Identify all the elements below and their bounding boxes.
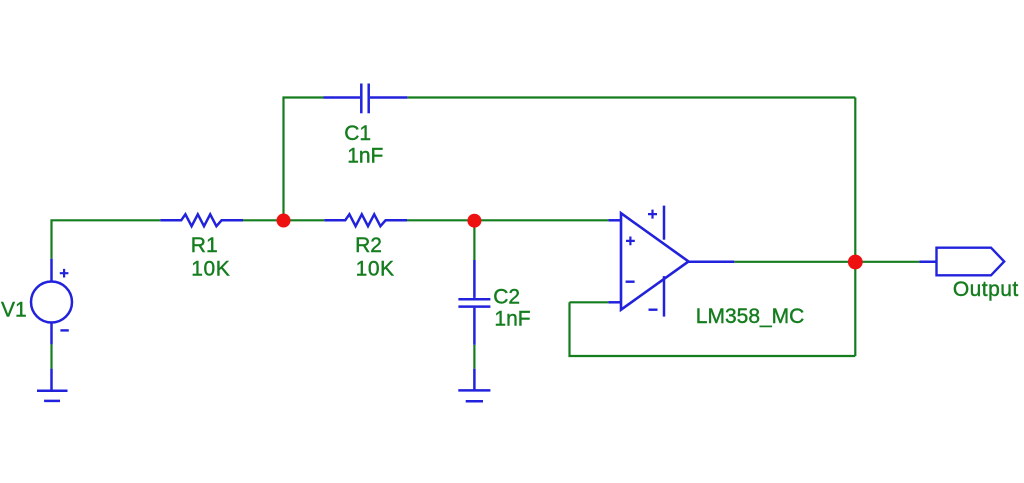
svg-text:1nF: 1nF	[347, 144, 383, 167]
svg-text:R2: R2	[355, 234, 382, 257]
svg-text:R1: R1	[191, 234, 218, 257]
svg-text:Output: Output	[953, 278, 1019, 301]
svg-text:1nF: 1nF	[494, 307, 530, 330]
svg-text:V1: V1	[1, 299, 27, 322]
svg-text:10K: 10K	[356, 258, 395, 281]
svg-text:LM358_MC: LM358_MC	[696, 305, 805, 328]
svg-text:10K: 10K	[191, 258, 230, 281]
svg-text:C2: C2	[493, 286, 520, 309]
svg-text:C1: C1	[344, 122, 371, 145]
